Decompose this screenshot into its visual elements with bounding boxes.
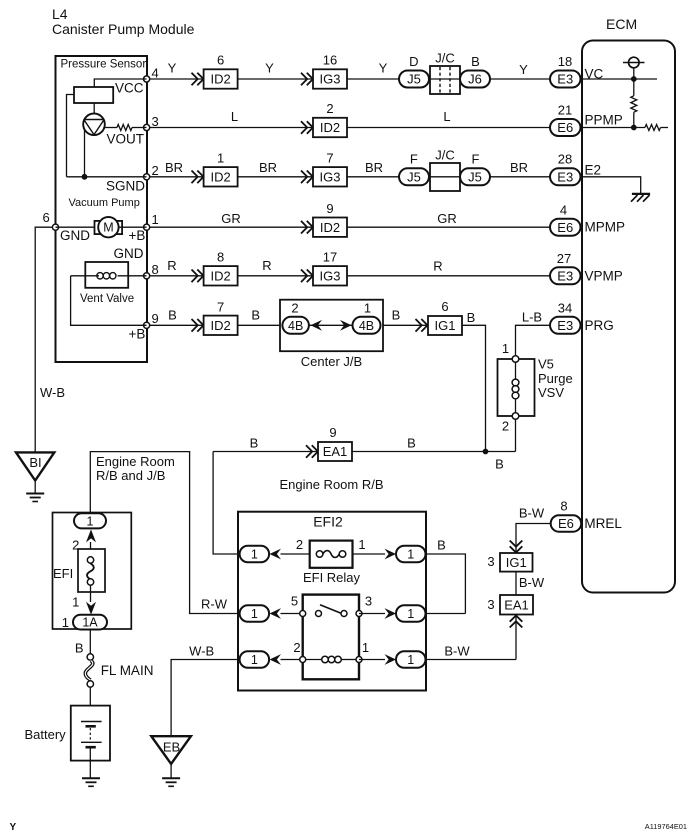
svg-text:8: 8 [560,499,567,514]
wire power to VC [633,68,635,96]
svg-text:J6: J6 [468,72,482,87]
svg-text:7: 7 [217,300,224,315]
svg-text:Engine Room: Engine Room [96,454,175,469]
pin 6 [52,224,58,230]
svg-text:1: 1 [251,607,258,621]
svg-text:EFI Relay: EFI Relay [303,570,361,585]
chevron connector [192,73,204,86]
svg-text:B: B [471,54,480,69]
svg-text:A119764E01: A119764E01 [645,822,687,831]
battery cell plates [81,721,102,723]
svg-text:1: 1 [251,548,258,562]
svg-text:ID2: ID2 [210,170,230,185]
relay pin 3 terminal [356,611,362,617]
connector 1 row B right [396,605,426,622]
wire pin6 to BI ground [35,227,55,452]
svg-text:ID2: ID2 [210,318,230,333]
svg-text:18: 18 [558,54,572,69]
svg-text:L-B: L-B [522,310,542,325]
svg-text:J/C: J/C [435,148,455,163]
svg-text:E3: E3 [557,269,573,284]
svg-text:1: 1 [62,615,69,630]
arrow into connector row C [270,654,282,665]
wire row A loop to row B [426,554,466,614]
svg-text:BR: BR [259,160,277,175]
wire pin3 to ID2 [150,127,314,129]
connector IG3 [313,167,347,186]
svg-text:1: 1 [152,212,159,227]
fuse element [87,563,94,579]
arrow into 4B right [340,320,352,331]
svg-text:E2: E2 [585,163,602,178]
wire junction to VSV pin 2 [515,419,517,451]
pin 4 [144,76,150,82]
svg-text:BR: BR [165,160,183,175]
connector E3 pin 18 [550,71,581,88]
svg-text:EA1: EA1 [323,444,348,459]
svg-text:Engine Room R/B: Engine Room R/B [279,477,383,492]
fusible link FL MAIN [85,661,93,681]
wire pin9 to ID2 [150,324,204,326]
connector E3 pin 34 [550,317,581,334]
wire sensor to SGND [84,130,86,177]
wire row C left [281,659,303,661]
svg-text:R: R [262,258,271,273]
svg-text:FL MAIN: FL MAIN [101,663,154,678]
svg-text:9: 9 [326,201,333,216]
svg-text:1: 1 [407,548,414,562]
svg-text:E6: E6 [557,220,573,235]
arrow down into connector 1A [86,602,96,615]
wire E2 internal [581,177,641,194]
svg-text:1: 1 [407,607,414,621]
svg-text:5: 5 [291,594,298,609]
wire ID2 to E6 [347,226,550,228]
resistor internal [645,125,661,131]
svg-text:B: B [392,308,401,323]
wire sensor to VOUT resistor [104,127,117,129]
svg-text:IG3: IG3 [320,269,341,284]
VSV pin 1 [512,356,519,363]
SGND wire [67,176,147,178]
SGND junction node [82,174,88,180]
wire 4B to IG1 [383,324,428,326]
svg-text:IG1: IG1 [435,318,456,333]
svg-text:Y: Y [10,822,17,833]
wire row B left [281,613,303,615]
svg-text:3: 3 [487,597,494,612]
svg-text:1: 1 [407,653,414,667]
wire EB to ground [170,764,172,778]
svg-text:GR: GR [221,211,241,226]
svg-text:IG3: IG3 [320,72,341,87]
FL MAIN terminal top [87,654,93,660]
relay coil [322,656,329,663]
svg-text:Y: Y [519,62,528,77]
svg-text:E6: E6 [557,120,573,135]
svg-text:B: B [75,641,84,656]
fuse element [323,551,339,558]
wire row A left [281,553,310,555]
svg-text:+B: +B [129,327,146,342]
EFI fuse block box [53,513,132,630]
EFI2 box [238,512,426,691]
wire 1A to FL MAIN [89,630,91,655]
connector ID2 [313,218,347,237]
svg-text:MREL: MREL [584,516,622,531]
connector ID2 [204,316,238,335]
svg-text:ID2: ID2 [210,72,230,87]
connector ID2 [204,167,238,186]
svg-text:W-B: W-B [189,644,214,659]
connector EA1 [318,442,352,461]
switch contact right [341,611,347,617]
svg-text:L: L [443,109,450,124]
svg-text:BR: BR [365,160,383,175]
wire pin1 to ID2 [150,226,314,228]
connector ID2 [204,266,238,285]
wire ID2 to IG3 [238,275,313,277]
wire vent valve to pin9 [71,276,147,326]
battery box [71,706,110,761]
svg-text:9: 9 [152,311,159,326]
svg-text:4B: 4B [288,319,303,333]
svg-text:E3: E3 [557,72,573,87]
svg-text:Y: Y [265,61,274,76]
node on VC wire [631,76,637,82]
svg-text:SGND: SGND [106,179,145,194]
connector E3 pin 27 [550,267,581,284]
relay pin 2 terminal [300,657,306,663]
svg-text:1A: 1A [82,616,98,630]
arrow into connector row A [270,549,282,560]
wire row B right [359,613,385,615]
svg-text:B: B [168,308,177,323]
svg-text:Vacuum Pump: Vacuum Pump [69,197,140,209]
switch contact left [316,611,322,617]
connector IG1 [428,316,462,335]
svg-text:B-W: B-W [519,575,545,590]
svg-text:J5: J5 [407,170,421,185]
svg-text:L4: L4 [52,6,68,22]
chassis ground E2 [632,193,650,195]
svg-text:B-W: B-W [519,506,545,521]
wire pin4 to ID2 [150,78,204,80]
svg-text:2: 2 [326,101,333,116]
svg-text:F: F [472,152,480,167]
svg-text:2: 2 [152,163,159,178]
ground triangle BI [16,452,54,480]
pin 3 [144,124,150,130]
svg-text:PRG: PRG [585,318,614,333]
svg-text:B: B [251,308,260,323]
svg-text:VOUT: VOUT [107,132,145,147]
svg-text:1: 1 [72,595,79,610]
ground symbol BI [26,493,44,495]
wire battery to ground [89,747,91,778]
wire row C right [359,659,385,661]
wire IG1 to purge VSV junction [462,325,486,451]
svg-text:BI: BI [29,455,41,470]
connector IG3 [313,266,347,285]
wire EA1 row down to EFI2 relay row A [213,452,240,555]
purge VSV box V5 [498,359,535,416]
connector 1 row A right [396,546,426,563]
Center J/B box [280,300,383,352]
connector 1 row A left [240,546,270,563]
connector ID2 [204,69,238,88]
svg-text:Y: Y [168,61,177,76]
svg-text:B: B [407,436,416,451]
svg-text:W-B: W-B [40,385,65,400]
connector E6 pin 4 [550,219,581,236]
motor brush left [95,221,101,234]
wire VCC to sensor circle [93,103,95,114]
chevron connector [301,221,313,234]
relay pin 1 terminal [356,657,362,663]
vent valve box [85,262,128,288]
svg-text:R: R [167,258,176,273]
svg-text:2: 2 [293,640,300,655]
wire BI to ground [34,481,36,494]
svg-text:3: 3 [365,594,372,609]
ECM box [582,41,675,593]
chevron connector [192,270,204,283]
VOUT resistor [117,125,132,131]
wire coil to pin8 [118,275,147,277]
svg-text:3: 3 [487,554,494,569]
svg-text:B-W: B-W [444,644,470,659]
motor brush right [116,221,122,234]
svg-text:1: 1 [364,301,371,316]
connector IG1 [500,553,533,572]
VSV coil [515,362,517,379]
wire engine room to EA1 [213,451,318,453]
svg-text:E3: E3 [557,318,573,333]
chevron connector [301,270,313,283]
svg-text:ID2: ID2 [320,220,340,235]
wire ID2 to IG3 [238,176,313,178]
wire row A right [353,553,386,555]
svg-text:PPMP: PPMP [585,113,623,128]
wire MREL to column [516,524,551,554]
pin 9 [144,322,150,328]
chevron connector [301,171,313,184]
svg-text:9: 9 [329,425,336,440]
svg-text:Y: Y [379,61,388,76]
svg-text:4: 4 [560,203,567,218]
battery ground [82,777,100,779]
svg-text:R/B and J/B: R/B and J/B [96,468,165,483]
svg-text:1: 1 [87,514,94,528]
chevron connector [192,171,204,184]
connector E6 pin 21 [550,119,581,136]
chevron connector [192,319,204,332]
svg-text:21: 21 [558,103,572,118]
svg-text:F: F [410,152,418,167]
svg-text:V5: V5 [538,357,554,372]
vent valve coil [97,273,103,279]
connector 1 row C right [396,651,426,668]
svg-text:+B: +B [129,228,146,243]
arrow up into connector [86,529,96,542]
svg-text:Purge: Purge [538,371,573,386]
fuse terminal top [87,557,93,563]
svg-text:MPMP: MPMP [585,220,626,235]
arrow into connector row C right [385,654,397,665]
chevron connector [306,445,318,458]
VCC supply rect [74,87,113,103]
wire to coil [306,659,322,661]
connector J5 [399,168,429,185]
svg-text:3: 3 [152,114,159,129]
svg-text:R-W: R-W [201,597,228,612]
arrow into connector row B right [385,608,397,619]
junction connector J/C dashed [430,66,460,94]
fuse terminal left [316,551,323,558]
relay pin 5 terminal [300,611,306,617]
svg-text:1: 1 [502,341,509,356]
arrow into connector row B [270,608,282,619]
wire coil to pin1 [341,659,356,661]
ground triangle EB [151,736,191,764]
wire row C to MREL column [426,659,517,661]
connector 1 row C left [240,651,270,668]
wire arrow to fuse [90,542,92,557]
chevron down into IG1 [510,541,523,553]
wire EB to EFI2 [171,660,240,737]
svg-text:4B: 4B [359,319,374,333]
wire EA1 to junction [352,451,516,453]
svg-text:4: 4 [152,66,159,81]
arrow into 4B left [311,320,323,331]
connector 1A bottom [73,615,107,630]
svg-text:8: 8 [152,262,159,277]
wire fuse to arrow [90,585,92,602]
wire FL MAIN to battery [89,687,91,719]
svg-text:ECM: ECM [606,16,637,32]
svg-text:IG1: IG1 [506,555,527,570]
connector J5 [399,71,429,88]
svg-text:GND: GND [60,228,90,243]
fuse terminal bottom [87,579,93,585]
wire J5 to E3 [490,176,550,178]
vacuum pump motor [98,217,118,237]
svg-text:1: 1 [251,653,258,667]
svg-text:34: 34 [558,301,572,316]
connector IG3 [313,69,347,88]
wire EA1 down to row C [515,615,517,660]
wire VCC left branch to SGND [67,95,75,177]
module box L4 canister pump module [56,56,148,362]
relay box [303,595,359,680]
svg-text:M: M [103,221,113,235]
svg-text:6: 6 [217,53,224,68]
connector 4B pin 2 [282,317,309,334]
svg-text:E6: E6 [558,516,574,531]
svg-text:VCC: VCC [115,81,144,96]
svg-text:B: B [495,457,504,472]
svg-text:EB: EB [163,740,180,755]
wire vent valve row [71,275,99,277]
wire IG3 to E3 [347,275,550,277]
FL MAIN terminal bottom [87,681,93,687]
svg-text:EFI: EFI [53,566,73,581]
svg-text:BR: BR [510,160,528,175]
wire IG3 to J5 [347,176,399,178]
pin 8 [144,273,150,279]
svg-text:6: 6 [441,299,448,314]
wire pin2 to ID2 [150,176,204,178]
chevron connector [416,319,428,332]
svg-text:Center J/B: Center J/B [301,354,362,369]
svg-text:J/C: J/C [435,51,455,66]
svg-text:16: 16 [323,53,337,68]
svg-text:8: 8 [217,250,224,265]
svg-text:VPMP: VPMP [585,269,623,284]
wire pin4 to VCC supply [94,79,146,87]
wire VC internal [581,78,658,80]
power supply symbol [629,57,640,68]
pressure sensor element [83,114,105,136]
connector J5 right [460,168,490,185]
svg-text:B: B [250,436,259,451]
svg-text:E3: E3 [557,170,573,185]
svg-text:ID2: ID2 [320,120,340,135]
svg-text:17: 17 [323,250,337,265]
wire J6 to E3 [490,78,550,80]
switch blade [320,605,341,614]
junction node [483,449,489,455]
connector EA1 [500,595,533,615]
svg-text:2: 2 [502,419,509,434]
fuse terminal right [339,551,346,558]
svg-text:Canister Pump Module: Canister Pump Module [52,21,195,37]
wire pin8 to ID2 [150,275,204,277]
wire pin6 to motor [56,226,99,228]
EFI relay fuse box [310,541,353,568]
svg-text:VSV: VSV [538,385,564,400]
chevron up into EA1 [510,616,523,628]
chevron connector [301,73,313,86]
svg-text:28: 28 [558,152,572,167]
wire IG1 to EA1 [515,572,517,595]
svg-text:Vent Valve: Vent Valve [80,293,134,305]
svg-text:2: 2 [291,301,298,316]
VSV pin 2 [512,413,519,420]
wire row B to loop [426,613,466,615]
svg-text:B: B [437,538,446,553]
wire IG3 to J5 [347,78,399,80]
svg-text:ID2: ID2 [210,269,230,284]
svg-text:6: 6 [43,210,50,225]
svg-text:EFI2: EFI2 [313,513,343,529]
svg-text:1: 1 [358,537,365,552]
wire inside Center J/B [308,324,354,326]
junction connector J/C [430,163,460,191]
svg-text:Pressure Sensor: Pressure Sensor [61,59,147,71]
wire ID2 to IG3 [238,78,313,80]
wire resistor to PPMP [633,112,635,127]
wire EFI fuse to engine room R/B [90,452,239,614]
wire motor to pin1 [119,226,147,228]
EFI fuse box [78,549,105,592]
chevron connector [301,121,313,134]
connector 4B pin 1 [353,317,381,334]
svg-text:EA1: EA1 [504,597,529,612]
wire resistor to pin3 [132,127,147,129]
svg-text:J5: J5 [468,170,482,185]
